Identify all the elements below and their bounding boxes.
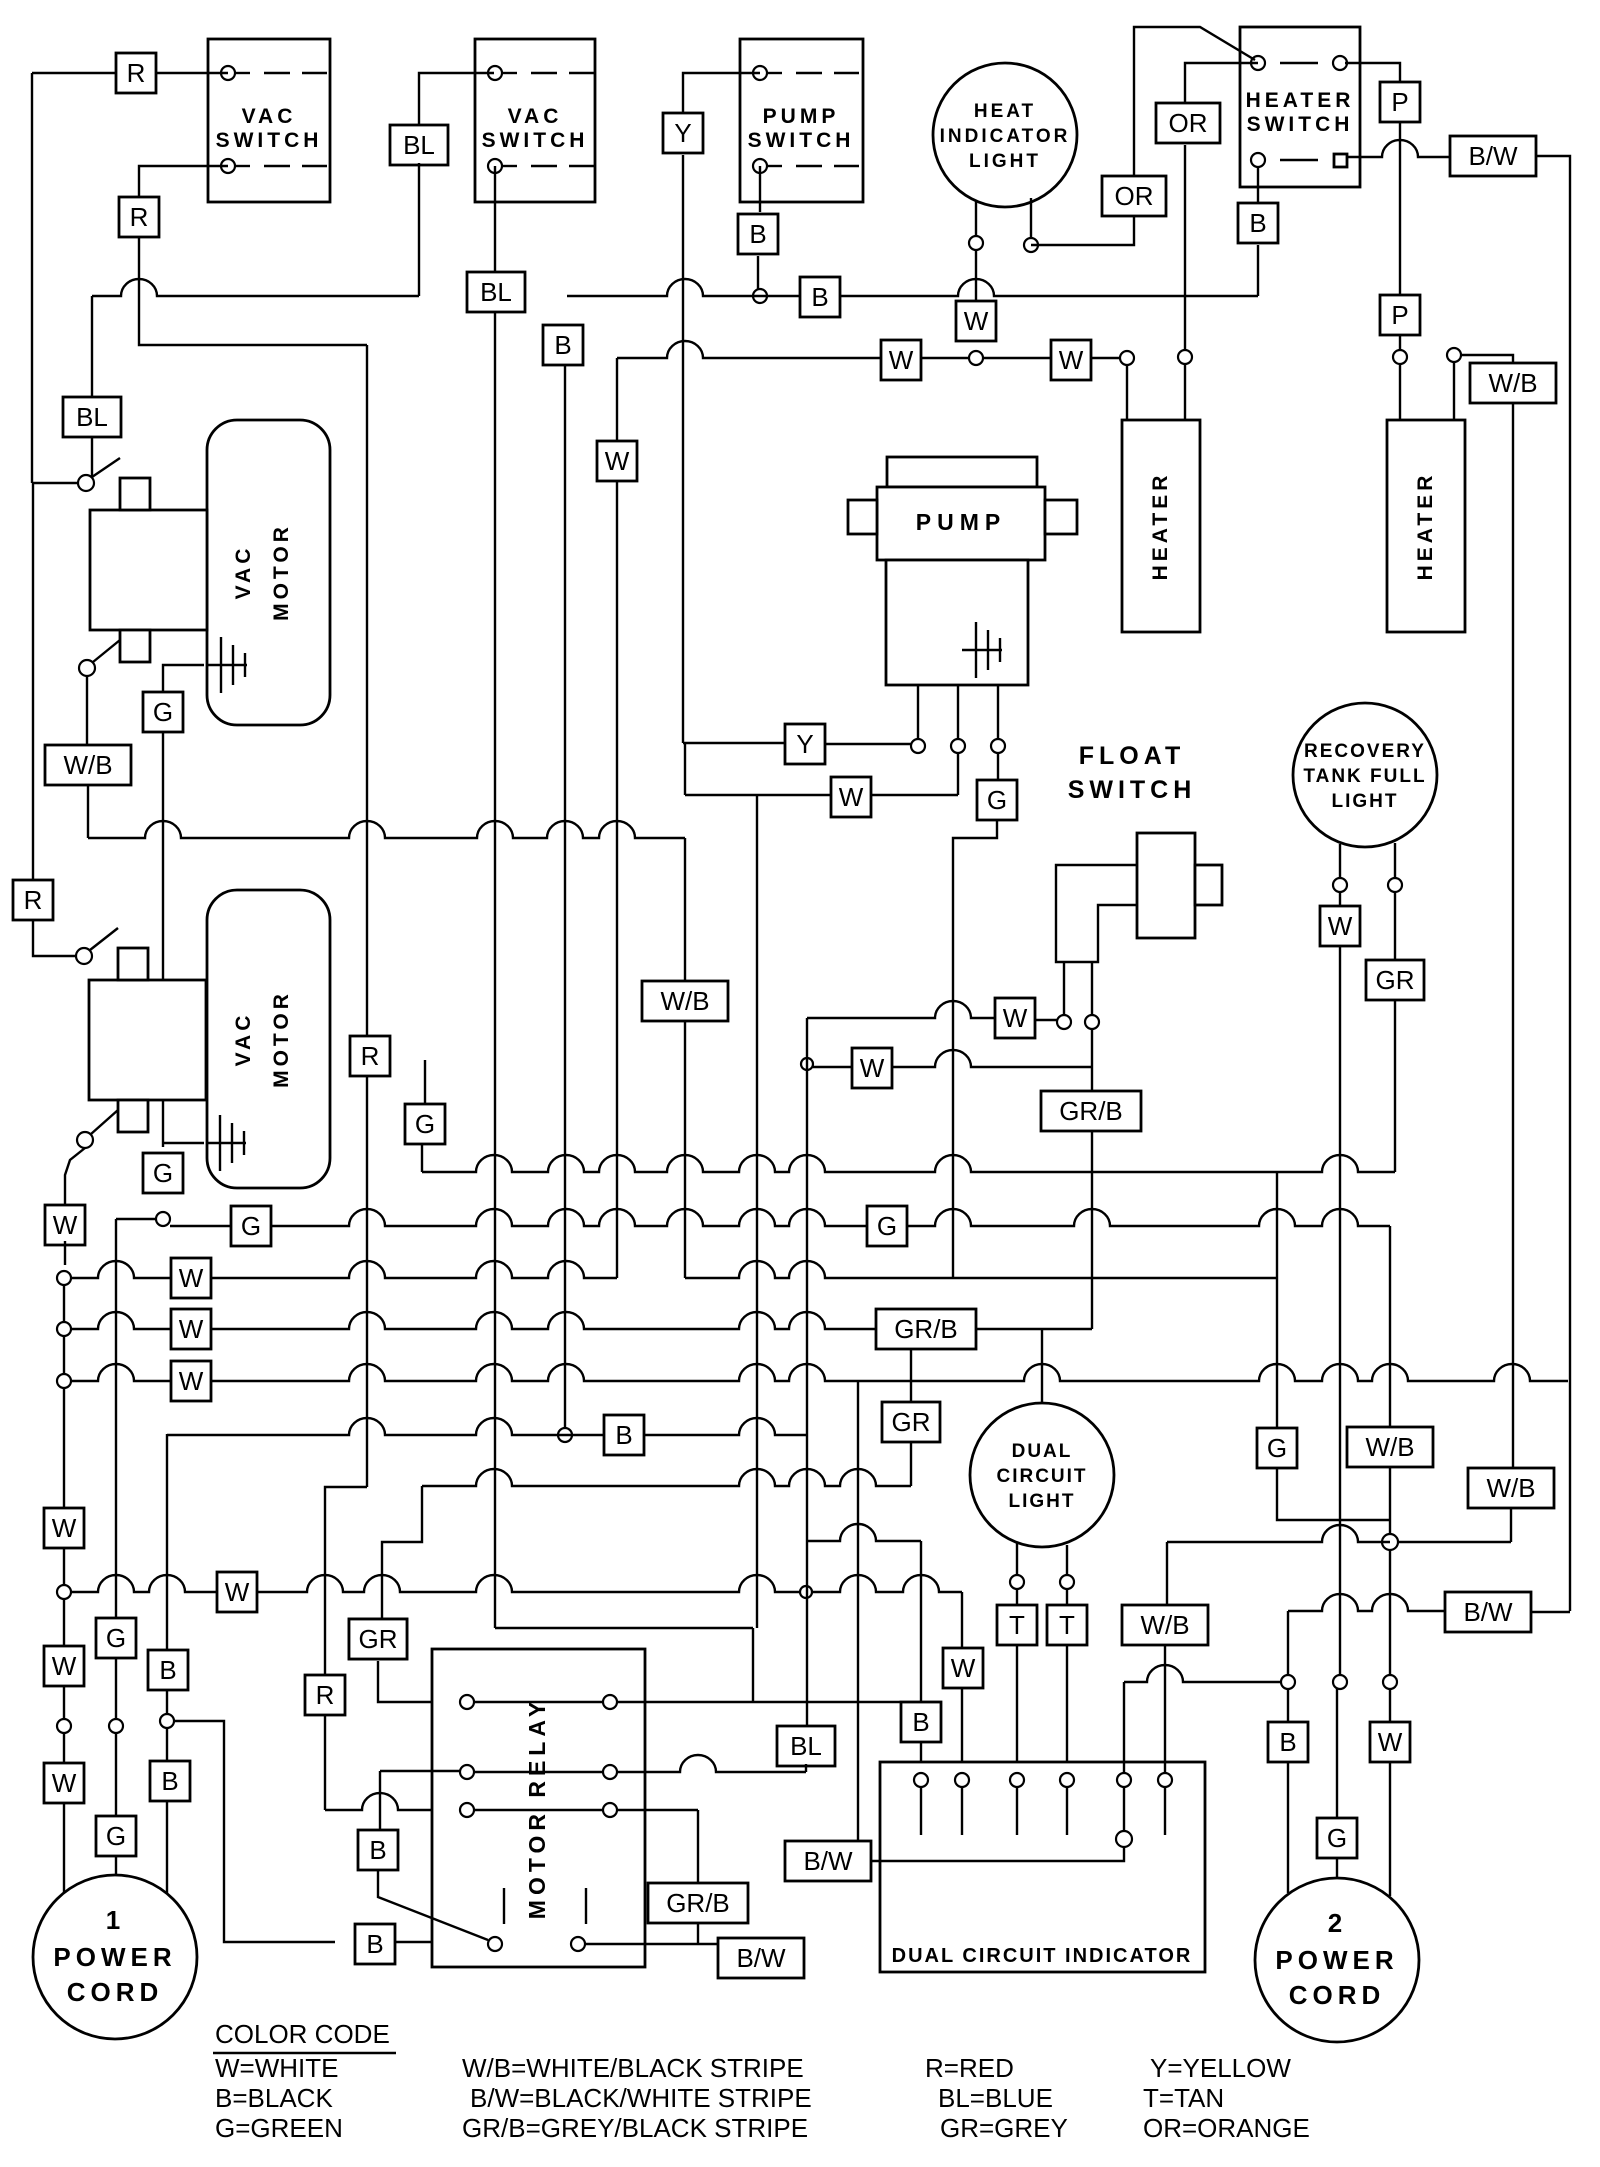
- svg-text:W: W: [605, 446, 630, 476]
- svg-text:B: B: [369, 1835, 386, 1865]
- svg-text:B: B: [161, 1766, 178, 1796]
- svg-text:R=RED: R=RED: [925, 2053, 1014, 2083]
- svg-text:G: G: [987, 785, 1007, 815]
- svg-text:B: B: [615, 1420, 632, 1450]
- svg-text:W: W: [52, 1513, 77, 1543]
- svg-text:OR: OR: [1115, 181, 1154, 211]
- svg-text:BL: BL: [790, 1731, 822, 1761]
- svg-text:G=GREEN: G=GREEN: [215, 2113, 343, 2143]
- svg-text:W: W: [839, 782, 864, 812]
- svg-text:B: B: [749, 219, 766, 249]
- svg-text:DUAL CIRCUIT INDICATOR: DUAL CIRCUIT INDICATOR: [892, 1945, 1193, 1967]
- svg-text:G: G: [877, 1211, 897, 1241]
- svg-text:OR=ORANGE: OR=ORANGE: [1143, 2113, 1310, 2143]
- svg-text:B: B: [1249, 208, 1266, 238]
- svg-text:B: B: [159, 1655, 176, 1685]
- svg-text:VAC: VAC: [242, 105, 297, 128]
- svg-text:W/B: W/B: [63, 750, 112, 780]
- svg-text:BL=BLUE: BL=BLUE: [938, 2083, 1053, 2113]
- svg-text:TANK FULL: TANK FULL: [1303, 766, 1426, 787]
- svg-text:P: P: [1391, 87, 1408, 117]
- svg-text:B: B: [1279, 1727, 1296, 1757]
- svg-text:SWITCH: SWITCH: [748, 129, 855, 152]
- svg-text:SWITCH: SWITCH: [482, 129, 589, 152]
- svg-text:HEATER: HEATER: [1414, 472, 1437, 581]
- svg-text:W: W: [951, 1653, 976, 1683]
- svg-text:CORD: CORD: [1289, 1980, 1386, 2010]
- svg-text:SWITCH: SWITCH: [216, 129, 323, 152]
- svg-text:R: R: [24, 885, 43, 915]
- svg-text:W/B: W/B: [1486, 1473, 1535, 1503]
- svg-text:W: W: [52, 1651, 77, 1681]
- svg-text:GR/B: GR/B: [666, 1888, 730, 1918]
- svg-text:GR: GR: [1376, 965, 1415, 995]
- svg-text:DUAL: DUAL: [1012, 1441, 1073, 1462]
- svg-text:B/W=BLACK/WHITE STRIPE: B/W=BLACK/WHITE STRIPE: [470, 2083, 812, 2113]
- svg-text:VAC: VAC: [232, 545, 255, 600]
- svg-text:CIRCUIT: CIRCUIT: [996, 1466, 1087, 1487]
- svg-text:W=WHITE: W=WHITE: [215, 2053, 339, 2083]
- svg-text:BL: BL: [480, 277, 512, 307]
- svg-text:W: W: [225, 1577, 250, 1607]
- svg-text:W: W: [1328, 911, 1353, 941]
- svg-text:W/B: W/B: [1488, 368, 1537, 398]
- svg-text:CORD: CORD: [67, 1977, 164, 2007]
- svg-text:FLOAT: FLOAT: [1079, 742, 1185, 770]
- svg-text:HEAT: HEAT: [974, 101, 1036, 122]
- svg-text:G: G: [153, 1158, 173, 1188]
- svg-text:G: G: [1267, 1433, 1287, 1463]
- svg-text:W: W: [179, 1263, 204, 1293]
- svg-text:Y=YELLOW: Y=YELLOW: [1150, 2053, 1291, 2083]
- svg-text:W/B: W/B: [1365, 1432, 1414, 1462]
- svg-text:B: B: [912, 1707, 929, 1737]
- svg-text:W: W: [1059, 345, 1084, 375]
- svg-text:W: W: [964, 306, 989, 336]
- svg-text:R: R: [127, 58, 146, 88]
- svg-text:INDICATOR: INDICATOR: [940, 126, 1071, 147]
- svg-text:1: 1: [106, 1905, 124, 1935]
- svg-text:Y: Y: [674, 118, 691, 148]
- svg-text:R: R: [130, 202, 149, 232]
- svg-text:W: W: [1378, 1727, 1403, 1757]
- svg-text:B=BLACK: B=BLACK: [215, 2083, 333, 2113]
- svg-text:W: W: [52, 1768, 77, 1798]
- svg-text:G: G: [106, 1821, 126, 1851]
- svg-text:B: B: [554, 330, 571, 360]
- svg-text:G: G: [241, 1211, 261, 1241]
- svg-text:2: 2: [1328, 1908, 1346, 1938]
- svg-text:T=TAN: T=TAN: [1143, 2083, 1224, 2113]
- svg-text:R: R: [361, 1041, 380, 1071]
- svg-text:W: W: [860, 1053, 885, 1083]
- svg-text:W: W: [179, 1314, 204, 1344]
- svg-text:G: G: [415, 1109, 435, 1139]
- svg-text:BL: BL: [403, 130, 435, 160]
- svg-text:Y: Y: [796, 729, 813, 759]
- svg-text:W/B: W/B: [1140, 1610, 1189, 1640]
- svg-text:B/W: B/W: [736, 1943, 786, 1973]
- svg-text:W/B=WHITE/BLACK STRIPE: W/B=WHITE/BLACK STRIPE: [462, 2053, 804, 2083]
- svg-text:G: G: [153, 697, 173, 727]
- svg-text:OR: OR: [1169, 108, 1208, 138]
- svg-text:GR: GR: [359, 1624, 398, 1654]
- svg-text:VAC: VAC: [508, 105, 563, 128]
- svg-text:HEATER: HEATER: [1246, 89, 1355, 112]
- svg-text:MOTOR RELAY: MOTOR RELAY: [524, 1697, 550, 1919]
- svg-text:POWER: POWER: [1275, 1945, 1398, 1975]
- svg-text:MOTOR: MOTOR: [270, 990, 293, 1088]
- svg-text:PUMP: PUMP: [763, 105, 840, 128]
- svg-text:GR=GREY: GR=GREY: [940, 2113, 1068, 2143]
- svg-text:P: P: [1391, 300, 1408, 330]
- svg-text:MOTOR: MOTOR: [270, 523, 293, 621]
- svg-text:G: G: [106, 1623, 126, 1653]
- svg-text:HEATER: HEATER: [1149, 472, 1172, 581]
- svg-text:BL: BL: [76, 402, 108, 432]
- svg-text:POWER: POWER: [53, 1942, 176, 1972]
- svg-text:SWITCH: SWITCH: [1068, 776, 1197, 804]
- svg-text:W/B: W/B: [660, 986, 709, 1016]
- svg-text:COLOR CODE: COLOR CODE: [215, 2019, 390, 2049]
- svg-text:W: W: [889, 345, 914, 375]
- svg-text:W: W: [53, 1210, 78, 1240]
- svg-text:LIGHT: LIGHT: [1332, 791, 1399, 812]
- svg-text:T: T: [1009, 1610, 1025, 1640]
- svg-text:B: B: [811, 282, 828, 312]
- svg-text:LIGHT: LIGHT: [969, 151, 1041, 172]
- svg-text:GR: GR: [892, 1407, 931, 1437]
- svg-text:B: B: [366, 1929, 383, 1959]
- svg-text:VAC: VAC: [232, 1012, 255, 1067]
- svg-text:PUMP: PUMP: [916, 509, 1006, 535]
- svg-text:GR/B: GR/B: [894, 1314, 958, 1344]
- svg-text:W: W: [1003, 1003, 1028, 1033]
- svg-text:G: G: [1327, 1823, 1347, 1853]
- svg-text:B/W: B/W: [803, 1846, 853, 1876]
- svg-text:T: T: [1059, 1610, 1075, 1640]
- svg-text:GR/B: GR/B: [1059, 1096, 1123, 1126]
- svg-text:B/W: B/W: [1468, 141, 1518, 171]
- svg-text:R: R: [316, 1680, 335, 1710]
- svg-text:GR/B=GREY/BLACK STRIPE: GR/B=GREY/BLACK STRIPE: [462, 2113, 808, 2143]
- svg-text:RECOVERY: RECOVERY: [1304, 741, 1426, 762]
- svg-text:SWITCH: SWITCH: [1247, 113, 1354, 136]
- svg-text:W: W: [179, 1366, 204, 1396]
- svg-text:B/W: B/W: [1463, 1597, 1513, 1627]
- svg-text:LIGHT: LIGHT: [1009, 1491, 1076, 1512]
